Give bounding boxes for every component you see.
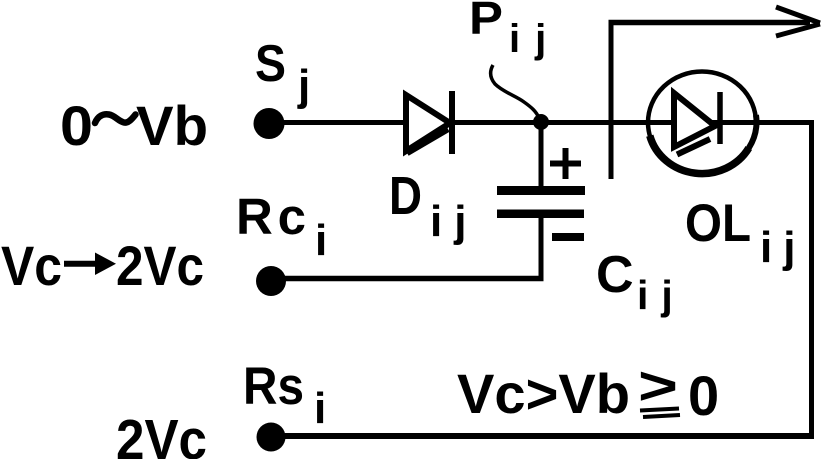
svg-text:ij: ij xyxy=(637,272,686,318)
svg-text:C: C xyxy=(596,246,634,304)
svg-text:i: i xyxy=(315,216,327,265)
svg-text:2Vc: 2Vc xyxy=(116,234,204,297)
svg-text:j: j xyxy=(297,61,310,110)
svg-text:ij: ij xyxy=(760,223,806,272)
svg-text:0: 0 xyxy=(60,94,93,157)
svg-text:2Vc: 2Vc xyxy=(116,408,207,459)
svg-text:0: 0 xyxy=(688,364,719,427)
svg-text:D: D xyxy=(389,166,422,226)
svg-text:ij: ij xyxy=(509,17,561,61)
svg-text:Rs: Rs xyxy=(243,357,304,416)
svg-text:i: i xyxy=(314,384,326,433)
svg-text:Vc>Vb: Vc>Vb xyxy=(457,362,630,425)
svg-text:Vc: Vc xyxy=(1,234,62,297)
svg-text:OL: OL xyxy=(685,194,751,253)
svg-text:ij: ij xyxy=(430,197,478,246)
svg-text:P: P xyxy=(469,0,503,44)
svg-text:Rc: Rc xyxy=(236,188,306,245)
svg-text:Vb: Vb xyxy=(136,94,208,157)
svg-text:S: S xyxy=(255,35,286,93)
